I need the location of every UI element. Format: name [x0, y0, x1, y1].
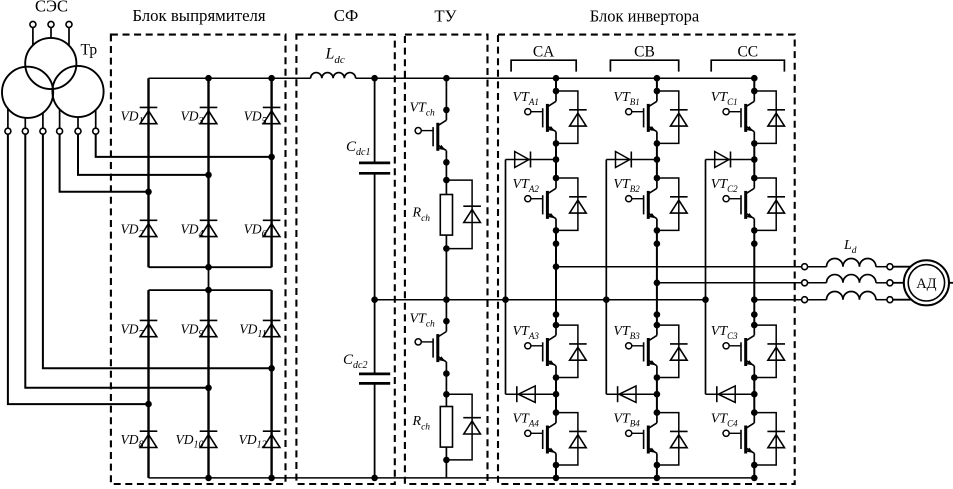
filter СФ dashed box: [296, 35, 394, 484]
diode antiparallel VTB3: [657, 325, 688, 377]
bracket CC: [711, 60, 784, 71]
transistor VTB1: [626, 91, 657, 143]
node clamp lower CA: [553, 391, 560, 398]
bracket CB: [610, 60, 678, 71]
svg-text:VD2: VD2: [121, 221, 144, 240]
wire motor lead B: [893, 282, 904, 284]
svg-text:VTB2: VTB2: [613, 177, 640, 194]
node top-bridge negative rail center: [205, 264, 212, 271]
transistor VTB4: [626, 413, 657, 465]
wire top-bridge leg x=271.6: [270, 78, 272, 267]
node VTC3 emitter: [751, 374, 758, 381]
wire output B to choke: [808, 282, 827, 284]
resistor Rch (upper): [440, 195, 452, 236]
svg-text:VTA2: VTA2: [513, 177, 540, 194]
diode clamp lower CB: [606, 393, 657, 395]
transistor VTch (lower): [415, 321, 446, 373]
svg-text:VTC3: VTC3: [711, 324, 738, 341]
svg-text:VD11: VD11: [239, 321, 266, 340]
diode VD4: [200, 220, 218, 236]
wire phase lead 2 to bridge: [25, 134, 208, 388]
diode antiparallel VTA4: [556, 413, 587, 465]
wire chopper upper bottom: [445, 235, 447, 300]
wire phase lead 4 to bridge: [60, 134, 149, 192]
wire chopper upper feed: [445, 78, 447, 110]
svg-text:VTC4: VTC4: [711, 411, 738, 428]
diode clamp upper CC: [706, 159, 755, 161]
rectifier block dashed box: [111, 35, 286, 484]
wire leg CB top feed: [656, 78, 658, 91]
capacitor Cdc1: [359, 162, 390, 165]
node chopper lower at feed rail: [443, 296, 450, 303]
wire leg CA bottom feed: [555, 465, 557, 478]
svg-text:VD1: VD1: [121, 108, 144, 127]
svg-text:CC: CC: [737, 44, 758, 61]
node DC- rail leg CA: [553, 475, 560, 482]
svg-text:VTA1: VTA1: [513, 90, 539, 107]
svg-text:Cdc2: Cdc2: [343, 352, 367, 371]
wire leg CC between VTC3 and VTC4: [753, 378, 755, 413]
diode VD8: [140, 431, 158, 447]
svg-text:Ld: Ld: [843, 238, 857, 256]
transistor VTB2: [626, 178, 657, 230]
diode antiparallel VTC1: [754, 91, 785, 143]
svg-text:VTch: VTch: [410, 312, 436, 330]
transistor VTC3: [723, 325, 754, 377]
wire motor shaft: [949, 282, 953, 284]
svg-text:CB: CB: [634, 44, 655, 61]
terminal inverter output A: [802, 264, 808, 270]
node clamp rail CA at midpoint rail: [502, 296, 509, 303]
node DC+ rail leg CB: [654, 75, 661, 82]
node DC- rail leg CC: [751, 475, 758, 482]
svg-text:СФ: СФ: [334, 6, 358, 25]
svg-text:VD9: VD9: [181, 321, 204, 340]
wire bottom-bridge leg x=148.5: [147, 290, 149, 478]
node clamp rail CC at midpoint rail: [702, 296, 709, 303]
wire motor lead A: [893, 266, 911, 268]
capacitor Cdc2: [359, 373, 390, 376]
diode chopper upper parallel branch: [446, 180, 472, 249]
wire phase lead 5 to bridge: [78, 134, 209, 175]
transistor VTA4: [525, 413, 556, 465]
wire leg CA top feed: [555, 78, 557, 91]
node VTC4 emitter: [751, 462, 758, 469]
wire leg CA between VTA3 and VTA4: [555, 378, 557, 413]
transistor VTC2: [723, 178, 754, 230]
svg-text:VD10: VD10: [176, 432, 204, 451]
svg-text:VD6: VD6: [244, 221, 267, 240]
diode VD9: [200, 320, 218, 336]
wire top-bridge leg x=148.5: [147, 78, 149, 267]
svg-text:VD7: VD7: [121, 321, 145, 340]
wire leg CA between VTA1 and VTA2: [555, 143, 557, 178]
wire leg CC bottom feed: [753, 465, 755, 478]
wire leg CC center section: [753, 230, 755, 325]
source terminal 1: [30, 21, 36, 27]
node VTC1 collector: [751, 88, 758, 95]
node leg CC lower module joint: [751, 311, 758, 318]
inductor Ld phase A: [827, 258, 876, 266]
node VTA2 emitter: [553, 227, 560, 234]
wire Cdc1 to midpoint: [374, 173, 376, 299]
node DC+ rail leg CA: [553, 75, 560, 82]
svg-text:VTC2: VTC2: [711, 177, 738, 194]
node leg CB module joint: [654, 240, 661, 247]
wire clamp rail CB: [605, 160, 607, 395]
node VTC2 emitter: [751, 227, 758, 234]
svg-text:Блок инвертора: Блок инвертора: [590, 6, 700, 25]
wire leg CB bottom feed: [656, 465, 658, 478]
transistor VTC1: [723, 91, 754, 143]
node clamp lower CC: [751, 391, 758, 398]
node chopper upper diode branch bottom: [443, 245, 450, 252]
wire phase lead 3 to bridge: [43, 134, 272, 368]
source terminal 2: [48, 21, 54, 27]
wire choke C to terminal: [876, 299, 887, 301]
node VTA3 emitter: [553, 374, 560, 381]
node VTA1 collector: [553, 88, 560, 95]
node clamp upper CA: [553, 156, 560, 163]
transistor VTB3: [626, 325, 657, 377]
terminal motor side A: [887, 264, 893, 270]
svg-text:Ldc: Ldc: [325, 46, 345, 67]
node chopper upper at feed rail: [443, 75, 450, 82]
svg-text:VD8: VD8: [121, 432, 144, 451]
node VTA4 collector: [553, 409, 560, 416]
wire clamp rail CA: [505, 160, 507, 395]
node clamp upper CB: [654, 156, 661, 163]
svg-text:ТУ: ТУ: [434, 6, 456, 25]
node phase B output: [654, 280, 661, 287]
node Cdc2 at DC- rail: [371, 475, 378, 482]
diode antiparallel VTB2: [657, 178, 688, 230]
node VTB3 emitter: [654, 374, 661, 381]
diode VD7: [140, 320, 158, 336]
wire choke B to terminal: [876, 282, 887, 284]
terminal inverter output B: [802, 280, 808, 286]
diode antiparallel VTB1: [657, 91, 688, 143]
node VTA4 emitter: [553, 462, 560, 469]
wire top-bridge leg x=208.5: [207, 78, 209, 267]
node DC+ rail top-bridge leg3: [268, 75, 275, 82]
diode antiparallel VTA2: [556, 178, 587, 230]
wire VTch lower emitter to Rch: [445, 374, 447, 407]
resistor Rch (lower): [440, 407, 452, 448]
node bottom-bridge positive rail center: [205, 287, 212, 294]
transformer Тр winding 1: [25, 38, 76, 89]
motor АД: [904, 260, 949, 305]
wire phase A output: [556, 266, 802, 268]
diode antiparallel VTA1: [556, 91, 587, 143]
wire bottom-bridge leg x=208.5: [207, 290, 209, 478]
wire bottom-bridge leg x=271.6: [270, 290, 272, 478]
svg-text:Rch: Rch: [412, 414, 431, 433]
svg-text:VD12: VD12: [239, 432, 267, 451]
svg-text:СЭС: СЭС: [35, 0, 68, 16]
wire DC+ rail rectifier section: [149, 77, 311, 79]
transformer secondary terminal 2: [24, 118, 26, 128]
transformer secondary terminal 6: [95, 110, 97, 128]
wire leg CB center section: [656, 230, 658, 325]
svg-text:CA: CA: [533, 44, 555, 61]
transistor VTch (upper): [415, 110, 446, 162]
node VTB3 branch top: [654, 322, 661, 329]
wire DC+ rail main (filter to inverter leg CC): [356, 77, 755, 79]
node phase C output: [751, 296, 758, 303]
transformer secondary terminal 1: [7, 109, 9, 129]
node DC- rail leg CB: [654, 475, 661, 482]
wire DC- rail main: [149, 477, 755, 479]
node chopper lower diode branch top: [443, 391, 450, 398]
svg-text:VTA4: VTA4: [513, 411, 540, 428]
wire motor lead C: [893, 299, 911, 301]
inverter block dashed box: [498, 35, 795, 484]
wire bottom-bridge positive rail: [149, 289, 272, 291]
wire VTch upper emitter to Rch: [445, 162, 447, 194]
diode VD10: [200, 431, 218, 447]
wire clamp rail CC: [705, 160, 707, 395]
transistor VTA2: [525, 178, 556, 230]
svg-text:VTC1: VTC1: [711, 90, 738, 107]
node Ldc output: [371, 75, 378, 82]
transformer Тр winding 3: [52, 66, 103, 117]
transformer secondary terminal 4: [59, 109, 61, 128]
wire leg CB between VTB1 and VTB2: [656, 143, 658, 178]
svg-text:VD5: VD5: [244, 108, 267, 127]
node VTA3 branch top: [553, 322, 560, 329]
node clamp upper CC: [751, 156, 758, 163]
terminal motor side B: [887, 280, 893, 286]
wire phase lead 6 to bridge: [96, 134, 272, 157]
wire DC+ to Cdc1: [374, 78, 376, 163]
node DC+ rail leg CC: [751, 75, 758, 82]
wire top-bridge negative rail: [149, 266, 272, 268]
node DC- rail bottom-bridge leg2: [205, 475, 212, 482]
node chopper upper diode branch top: [443, 177, 450, 184]
node VTB4 emitter: [654, 462, 661, 469]
wire series link between bridges: [208, 267, 210, 290]
wire phase C output: [754, 299, 801, 301]
transformer secondary terminal 3: [42, 113, 44, 128]
transistor VTA1: [525, 91, 556, 143]
node phase input bottom bridge x=271.6: [268, 365, 275, 372]
diode antiparallel VTA3: [556, 325, 587, 377]
diode clamp lower CC: [706, 393, 755, 395]
node VTA1 emitter: [553, 140, 560, 147]
wire leg CA center section: [555, 230, 557, 325]
node VTC2 collector: [751, 175, 758, 182]
wire phase lead 1 to bridge: [8, 134, 149, 404]
wire Cdc2 to DC- rail: [374, 383, 376, 478]
node phase input top bridge x=148.5: [145, 189, 152, 196]
wire midpoint to Cdc2: [374, 300, 376, 374]
svg-text:VTB3: VTB3: [613, 324, 640, 341]
svg-text:VTch: VTch: [410, 100, 436, 118]
svg-text:Cdc1: Cdc1: [346, 139, 370, 158]
transistor VTC4: [723, 413, 754, 465]
wire chopper lower bottom: [445, 447, 447, 478]
transistor VTA3: [525, 325, 556, 377]
svg-text:VTB4: VTB4: [613, 411, 640, 428]
inductor Ld phase B: [827, 275, 876, 283]
svg-text:Тр: Тр: [81, 42, 98, 59]
wire output C to choke: [808, 299, 827, 301]
diode antiparallel VTC4: [754, 413, 785, 465]
node VTB1 emitter: [654, 140, 661, 147]
node clamp lower CB: [654, 391, 661, 398]
node phase A output: [553, 263, 560, 270]
diode chopper lower parallel branch: [446, 394, 472, 460]
transformer secondary terminal 5: [77, 117, 79, 128]
node leg CA lower module joint: [553, 311, 560, 318]
transformer Тр winding 2: [2, 67, 53, 118]
node DC- rail bottom-bridge leg3: [268, 475, 275, 482]
node phase input top bridge x=208.5: [205, 172, 212, 179]
diode VD12: [263, 431, 281, 447]
wire leg CC between VTC1 and VTC2: [753, 143, 755, 178]
terminal motor side C: [887, 297, 893, 303]
node VTch upper collector: [443, 107, 450, 114]
node VTB1 collector: [654, 88, 661, 95]
diode clamp upper CA: [506, 159, 557, 161]
svg-text:Rch: Rch: [412, 206, 431, 225]
diode clamp upper CB: [606, 159, 657, 161]
node leg CC module joint: [751, 240, 758, 247]
diode VD11: [263, 320, 281, 336]
node VTA2 collector: [553, 175, 560, 182]
diode clamp lower CA: [506, 393, 557, 395]
wire choke A to terminal: [876, 266, 887, 268]
svg-text:Блок выпрямителя: Блок выпрямителя: [132, 6, 266, 25]
chopper ТУ dashed box: [405, 35, 488, 484]
wire DC midpoint rail: [375, 299, 706, 301]
node VTch lower emitter: [443, 370, 450, 377]
node DC+ rail top-bridge leg2: [205, 75, 212, 82]
diode VD3: [200, 107, 218, 123]
terminal inverter output C: [802, 297, 808, 303]
inductor Ldc: [311, 73, 356, 79]
node phase input bottom bridge x=148.5: [145, 401, 152, 408]
wire chopper lower feed: [445, 300, 447, 322]
node leg CB lower module joint: [654, 311, 661, 318]
svg-text:VD3: VD3: [181, 108, 204, 127]
diode VD5: [263, 107, 281, 123]
diode VD2: [140, 220, 158, 236]
node phase input bottom bridge x=208.5: [205, 385, 212, 392]
wire output A to choke: [808, 266, 827, 268]
node VTC4 collector: [751, 409, 758, 416]
node VTB2 collector: [654, 175, 661, 182]
diode VD6: [263, 220, 281, 236]
node phase input top bridge x=271.6: [268, 154, 275, 161]
node VTC3 branch top: [751, 322, 758, 329]
node VTB4 collector: [654, 409, 661, 416]
node DC midpoint at capacitors: [371, 296, 378, 303]
diode antiparallel VTC2: [754, 178, 785, 230]
wire phase B output: [657, 282, 802, 284]
diode antiparallel VTC3: [754, 325, 785, 377]
node VTch lower collector: [443, 318, 450, 325]
svg-text:VD4: VD4: [181, 221, 204, 240]
svg-text:АД: АД: [916, 276, 936, 292]
node chopper lower diode branch bottom: [443, 457, 450, 464]
svg-text:VTB1: VTB1: [613, 90, 639, 107]
node clamp rail CB at midpoint rail: [603, 296, 610, 303]
node VTB2 emitter: [654, 227, 661, 234]
bracket CA: [511, 60, 576, 71]
diode antiparallel VTB4: [657, 413, 688, 465]
node leg CA module joint: [553, 240, 560, 247]
wire leg CB between VTB3 and VTB4: [656, 378, 658, 413]
inductor Ld phase C: [827, 291, 876, 299]
diode VD1: [140, 107, 158, 123]
node VTC1 emitter: [751, 140, 758, 147]
node VTch upper emitter: [443, 159, 450, 166]
wire leg CC top feed: [753, 78, 755, 91]
source terminal 3: [66, 21, 72, 27]
svg-text:VTA3: VTA3: [513, 324, 540, 341]
